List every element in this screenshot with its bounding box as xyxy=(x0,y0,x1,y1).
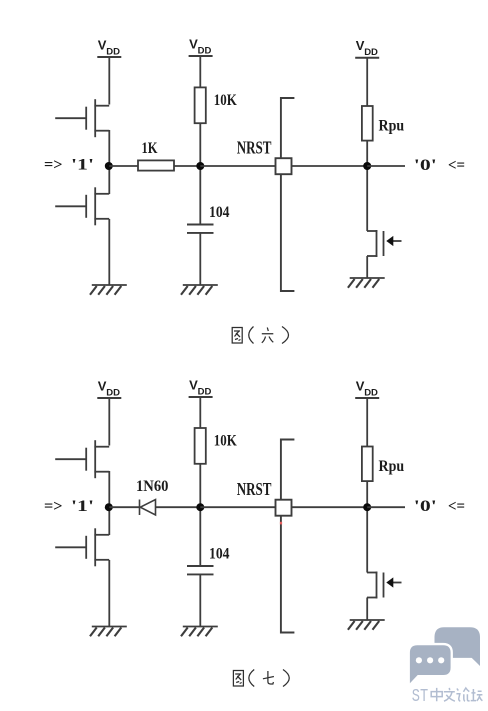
diode D 1N60 (cathode bar + triangle) xyxy=(140,500,156,516)
svg-text:Rpu: Rpu xyxy=(379,458,405,475)
svg-text:104: 104 xyxy=(209,204,230,221)
VDD supply middle (10K pullup) xyxy=(189,377,213,397)
wire Rpu to node C xyxy=(366,481,368,572)
VDD supply right (Rpu) xyxy=(355,38,379,58)
svg-text:=>: => xyxy=(44,157,63,174)
resistor 10K body xyxy=(195,87,206,123)
wire Rpu to node C xyxy=(366,141,368,231)
node C junction dot xyxy=(363,503,371,511)
svg-text:'1': '1' xyxy=(71,498,94,515)
svg-text:10K: 10K xyxy=(214,432,237,449)
ground (open-drain NMOS) xyxy=(348,620,385,630)
transistor Q open-drain NMOS xyxy=(367,572,402,599)
node A junction dot xyxy=(105,162,113,170)
svg-text:104: 104 xyxy=(209,546,230,563)
front chat bubble xyxy=(410,645,451,683)
NRST pin square xyxy=(276,500,292,516)
resistor Rpu body xyxy=(362,106,373,141)
watermark logo ST中文论坛 xyxy=(410,627,483,707)
front chat bubble (white halo) xyxy=(410,645,451,683)
svg-text:=>: => xyxy=(44,498,63,515)
svg-text:NRST: NRST xyxy=(237,137,272,157)
wire NMOS source to ground xyxy=(366,256,368,278)
文 xyxy=(444,688,455,701)
wire diode to node B xyxy=(156,506,201,508)
wire 10K to node B xyxy=(199,464,201,566)
transistor NMOS of inverter xyxy=(55,187,109,225)
wire NRST pin to node C xyxy=(292,506,368,508)
ground (inverter) xyxy=(90,627,127,637)
svg-text:<=: <= xyxy=(448,157,465,174)
wire resistor to node B xyxy=(174,165,200,167)
resistor 10K body xyxy=(195,428,206,464)
中 xyxy=(431,688,442,701)
wire 10K to node B xyxy=(199,123,201,224)
transistor PMOS of inverter xyxy=(55,99,109,137)
七 glyph xyxy=(263,671,274,684)
node A junction dot xyxy=(105,503,113,511)
svg-text:'1': '1' xyxy=(71,157,94,174)
NRST pin square xyxy=(276,158,292,174)
论 xyxy=(456,688,469,701)
chip edge bracket xyxy=(281,440,295,633)
wire VDD to PMOS source xyxy=(108,57,110,105)
VDD supply left (inverter) xyxy=(97,37,121,57)
transistor Q open-drain NMOS xyxy=(367,230,402,257)
red artifact dot xyxy=(280,522,282,525)
VDD supply middle (10K pullup) xyxy=(189,36,213,56)
wire PMOS drain to node A xyxy=(108,471,110,535)
bubble dots xyxy=(416,657,422,663)
svg-text:Rpu: Rpu xyxy=(379,117,405,134)
wire node C to output label xyxy=(367,165,405,167)
svg-text:'0': '0' xyxy=(414,498,437,515)
wire capacitor to ground xyxy=(199,574,201,626)
wire VDD to resistor 10K xyxy=(199,56,201,87)
caption 图（六） xyxy=(232,327,288,344)
wire node A to diode xyxy=(109,506,139,508)
wire capacitor to ground xyxy=(199,233,201,285)
capacitor C 104 xyxy=(187,566,214,574)
svg-text:<=: <= xyxy=(448,498,465,515)
wire node B to NRST pin xyxy=(200,506,275,508)
resistor 1K body xyxy=(138,160,174,170)
wire NMOS source to ground xyxy=(366,598,368,621)
chip edge bracket xyxy=(281,98,295,291)
node B junction dot xyxy=(196,162,204,170)
六 glyph xyxy=(262,328,274,343)
watermark text 中文论坛 xyxy=(431,688,482,701)
wire node A to resistor R 1K xyxy=(109,165,138,167)
VDD supply left (inverter) xyxy=(97,378,121,398)
（ fullwidth paren xyxy=(249,327,254,344)
svg-text:ST: ST xyxy=(412,687,429,707)
VDD supply right (Rpu) xyxy=(355,378,379,398)
图 glyph xyxy=(232,328,242,344)
ground (inverter) xyxy=(90,285,127,295)
ground (capacitor) xyxy=(181,285,218,295)
wire VDD to resistor 10K xyxy=(199,397,201,428)
坛 xyxy=(471,689,483,701)
wire PMOS drain to node A xyxy=(108,130,110,194)
svg-text:1N60: 1N60 xyxy=(136,478,169,495)
wire NMOS source to ground xyxy=(108,560,110,627)
（ fullwidth paren xyxy=(249,670,254,687)
图 glyph xyxy=(233,671,243,687)
wire node B to NRST pin xyxy=(200,165,275,167)
wire VDD to resistor Rpu xyxy=(366,398,368,447)
ground (open-drain NMOS) xyxy=(348,278,385,288)
wire NRST pin to node C xyxy=(292,165,368,167)
ground (capacitor) xyxy=(181,627,218,637)
node B junction dot xyxy=(196,503,204,511)
svg-text:NRST: NRST xyxy=(237,479,272,499)
wire NMOS source to ground xyxy=(108,219,110,285)
resistor Rpu body xyxy=(362,447,373,482)
caption 图（七） xyxy=(233,670,289,687)
back chat bubble xyxy=(435,627,481,666)
svg-text:'0': '0' xyxy=(414,157,437,174)
svg-text:10K: 10K xyxy=(214,92,237,109)
transistor PMOS of inverter xyxy=(55,440,109,478)
capacitor C 104 xyxy=(187,225,214,233)
wire node C to output label xyxy=(367,506,405,508)
） fullwidth paren xyxy=(283,670,289,687)
wire VDD to resistor Rpu xyxy=(366,58,368,106)
transistor NMOS of inverter xyxy=(55,528,109,566)
svg-text:1K: 1K xyxy=(142,140,158,157)
node C junction dot xyxy=(363,162,371,170)
wire VDD to PMOS source xyxy=(108,398,110,446)
） fullwidth paren xyxy=(282,327,289,344)
